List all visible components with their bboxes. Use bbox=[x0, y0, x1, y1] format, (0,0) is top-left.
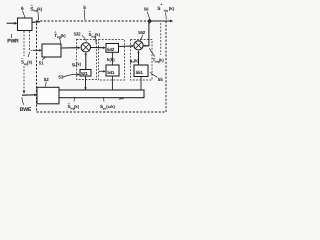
svg-text:52: 52 bbox=[44, 77, 50, 82]
label S~wg(k) top bbox=[30, 3, 43, 13]
svg-text:BWE: BWE bbox=[20, 107, 32, 113]
leader for S~wg(k) bbox=[37, 12, 40, 20]
multiplier 1 bbox=[81, 43, 90, 52]
label 55 bbox=[158, 77, 164, 82]
svg-text:51: 51 bbox=[39, 61, 44, 66]
box 541 bbox=[106, 65, 119, 76]
leader S*wg bbox=[165, 12, 168, 19]
wire box6 to frame bbox=[32, 21, 40, 24]
label 532 bbox=[74, 31, 82, 36]
label 552 bbox=[138, 30, 146, 35]
leader 51 bbox=[42, 57, 45, 60]
svg-text:55: 55 bbox=[158, 77, 164, 82]
long bar bbox=[59, 90, 144, 98]
wire 542 to mult2 bbox=[119, 45, 133, 48]
leader S~wg mid bbox=[95, 37, 98, 44]
label 54 bbox=[119, 95, 125, 100]
leader 55 bbox=[150, 72, 157, 77]
label 56 bbox=[144, 7, 149, 12]
wire box B to mult1 bbox=[61, 47, 78, 49]
label PWR bbox=[7, 39, 19, 45]
box 542 bbox=[106, 44, 119, 53]
label h(k) bbox=[107, 57, 115, 62]
leader 532 bbox=[82, 35, 87, 41]
svg-text:(ωk): (ωk) bbox=[106, 104, 115, 109]
leader 56 bbox=[147, 12, 150, 19]
box 52 (BWE block) bbox=[37, 87, 59, 104]
leader 52 bbox=[45, 82, 48, 87]
leader Twg bbox=[149, 48, 154, 56]
block 51 (box B) bbox=[42, 44, 61, 57]
svg-text:552: 552 bbox=[138, 30, 146, 35]
label 53 bbox=[58, 74, 64, 79]
line 551 up to mult2 bbox=[138, 52, 140, 65]
svg-text:(k): (k) bbox=[159, 58, 165, 63]
svg-text:(k): (k) bbox=[27, 60, 33, 65]
svg-text:551: 551 bbox=[136, 70, 144, 75]
svg-text:(k): (k) bbox=[134, 58, 140, 63]
stub mult2 right and feedback vertical bbox=[143, 22, 149, 46]
BWE label bbox=[20, 107, 32, 113]
box 521 bbox=[80, 70, 91, 77]
wire 521 to 541 bbox=[99, 70, 104, 72]
BWE arrow bbox=[22, 94, 35, 96]
dashed branch line bbox=[160, 23, 162, 55]
subframe 55 (dashed) bbox=[131, 40, 153, 81]
label Twg(k) bbox=[153, 58, 165, 64]
line 521 down to bar bbox=[85, 76, 87, 88]
leader for 5 bbox=[84, 10, 86, 21]
dashed line from box6 down bbox=[23, 31, 25, 56]
module frame 5 (dashed) bbox=[37, 21, 167, 112]
PWR leader bbox=[10, 34, 12, 38]
leader T^wg(k) bbox=[60, 38, 61, 44]
BWE leader bbox=[22, 97, 24, 105]
leader bottom 1 bbox=[73, 98, 76, 102]
leader for 6 bbox=[23, 11, 26, 18]
arrowhead down bbox=[23, 91, 26, 95]
label gT(k) bbox=[130, 58, 140, 64]
dashed line continues down to BWE wire bbox=[23, 66, 25, 91]
label S~wg(k) left middle bbox=[21, 57, 33, 66]
label 5 bbox=[83, 5, 86, 11]
svg-text:541: 541 bbox=[107, 70, 115, 75]
svg-text:(k): (k) bbox=[76, 62, 82, 67]
svg-text:521: 521 bbox=[81, 71, 88, 76]
label S~wg(k) bottom bbox=[68, 100, 80, 110]
label S~wg(k) middle top bbox=[89, 29, 101, 39]
subframe 54 (dashed) bbox=[99, 40, 125, 81]
leader S~wg left bbox=[28, 52, 30, 57]
svg-text:56: 56 bbox=[144, 7, 149, 12]
label S*wg(k) bbox=[157, 3, 174, 13]
svg-text:(k): (k) bbox=[74, 104, 80, 109]
gain line mult1 down bbox=[85, 55, 87, 70]
svg-text:532: 532 bbox=[74, 31, 82, 36]
line 541 down to bar bbox=[111, 76, 113, 90]
svg-text:(k): (k) bbox=[95, 32, 101, 37]
label 51 bbox=[39, 61, 44, 66]
svg-text:(k): (k) bbox=[61, 33, 67, 38]
arrow into box B bbox=[39, 49, 42, 52]
leader 53 bbox=[63, 74, 78, 77]
label gv(k) bbox=[72, 62, 82, 68]
label T^wg(k) bbox=[54, 31, 66, 39]
box 551 bbox=[134, 65, 148, 77]
svg-text:PWR: PWR bbox=[7, 39, 19, 45]
svg-text:542: 542 bbox=[107, 47, 115, 52]
leader 552 bbox=[140, 35, 143, 41]
wire mult1 to 542 bbox=[91, 47, 104, 49]
junction dot bbox=[147, 19, 152, 24]
label Syy(wk) bottom bbox=[100, 104, 116, 110]
leader 54 bbox=[113, 90, 118, 95]
svg-text:(k): (k) bbox=[37, 6, 43, 11]
dashed line to block 51 bbox=[30, 31, 34, 50]
box 6 (top left block) bbox=[18, 18, 33, 31]
leader bottom 2 bbox=[103, 98, 106, 102]
output arrow S*wg(k) bbox=[151, 20, 170, 22]
svg-text:(k): (k) bbox=[169, 6, 175, 11]
input arrow PWR bbox=[7, 22, 15, 24]
svg-text:h(k): h(k) bbox=[107, 57, 115, 62]
wire 542-541 bbox=[111, 53, 113, 65]
label 52 bbox=[44, 77, 50, 82]
svg-text:wg: wg bbox=[163, 8, 168, 12]
subframe 53 (dashed) bbox=[77, 40, 97, 80]
multiplier 2 bbox=[134, 41, 143, 50]
label 6 bbox=[21, 6, 24, 12]
line 551 down to bar bbox=[140, 77, 142, 91]
